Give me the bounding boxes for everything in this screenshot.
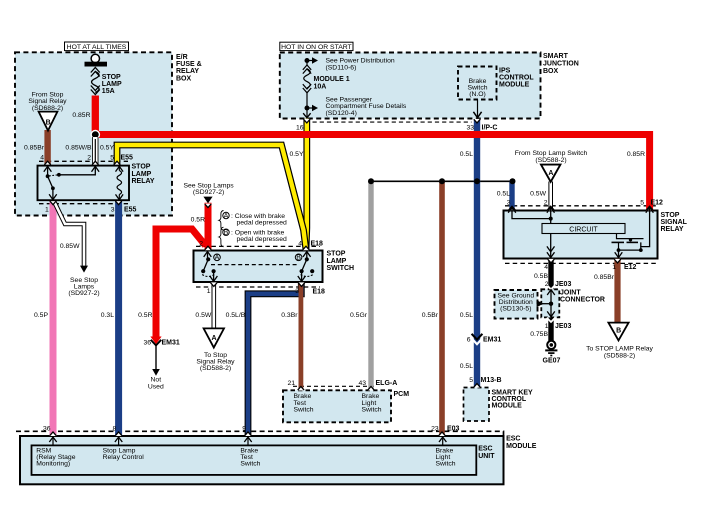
svg-text:6: 6: [467, 336, 471, 343]
see ground arrow: [537, 300, 544, 307]
triangle B from stop signal relay: [39, 112, 58, 131]
node gray tap: [368, 178, 374, 184]
svg-text:BOX: BOX: [176, 75, 192, 82]
fuse MODULE 1 10A element: [306, 61, 308, 67]
svg-text:Switch: Switch: [362, 406, 382, 413]
svg-text:(SD688-2): (SD688-2): [32, 105, 63, 112]
ESC module dashed boundary: [16, 431, 504, 436]
arrow see stop lamps top (into red): [203, 197, 212, 204]
triangle A from stop lamp switch: [541, 165, 560, 182]
pin E12-4 notch: [548, 259, 554, 263]
connector EM31 6 chevrons on blue: [472, 334, 483, 340]
brace A note: [219, 211, 224, 231]
pin E18-3 notch: [298, 282, 304, 286]
svg-text:E18: E18: [311, 240, 324, 247]
wire red 0.5R branch to EM31 36: [156, 229, 206, 338]
stop signal relay box: [504, 211, 658, 259]
joint connector JE03 internals: [547, 290, 555, 295]
svg-text:1: 1: [207, 288, 211, 295]
svg-text:CONNECTOR: CONNECTOR: [560, 297, 605, 304]
connector line E55 bottom: [39, 203, 128, 205]
svg-text:E55: E55: [121, 154, 134, 161]
wire white 0.5W switch pin1 to triangle A: [212, 283, 217, 328]
svg-text:RELAY: RELAY: [176, 68, 199, 75]
svg-text:LAMP: LAMP: [327, 258, 347, 265]
relay E55 line to pin 2: [59, 167, 95, 175]
stop lamp switch box: [194, 251, 323, 283]
svg-text:E03: E03: [447, 425, 460, 432]
pin E55-5 notch: [114, 162, 120, 166]
svg-text:JOINT: JOINT: [560, 289, 581, 296]
node red junction dot: [92, 131, 99, 138]
svg-text:0.3L: 0.3L: [101, 312, 114, 319]
svg-text:CONTROL: CONTROL: [499, 74, 534, 81]
svg-text:2: 2: [199, 240, 203, 247]
svg-text:Switch: Switch: [294, 406, 314, 413]
svg-text:SWITCH: SWITCH: [327, 265, 355, 272]
relay E55 blade dot: [51, 186, 55, 190]
fuse MODULE 1 10A node top: [305, 58, 310, 63]
svg-text:2: 2: [545, 281, 549, 288]
PCM box: [283, 390, 391, 422]
svg-text:0.85R: 0.85R: [627, 151, 645, 158]
pin E18-1 notch: [211, 282, 217, 286]
svg-text:0.5Br: 0.5Br: [422, 312, 439, 319]
triangle A to stop signal relay: [204, 328, 224, 347]
svg-text:(SD588-2): (SD588-2): [200, 365, 231, 372]
svg-text:0.5R: 0.5R: [138, 312, 152, 319]
ESC unit outer box: [20, 436, 504, 484]
svg-text:E12: E12: [651, 199, 664, 206]
svg-text:E55: E55: [124, 206, 137, 213]
svg-text:FUSE &: FUSE &: [176, 61, 202, 68]
brace B note: [219, 227, 224, 247]
svg-text:IPS: IPS: [499, 67, 511, 74]
svg-text:5: 5: [110, 154, 114, 161]
svg-text:E18: E18: [313, 288, 326, 295]
svg-text:(SD110-6): (SD110-6): [326, 64, 357, 71]
svg-text:0.3Br: 0.3Br: [281, 312, 298, 319]
wire black not-used stub: [155, 345, 157, 369]
pin E12-2 notch: [548, 207, 554, 211]
svg-text:ESC: ESC: [478, 446, 492, 453]
pin arrow ESC 23: [442, 437, 444, 445]
node blue tap: [474, 178, 480, 184]
svg-text:LAMP: LAMP: [102, 81, 122, 88]
pin E55-1 notch: [50, 201, 56, 205]
see ground distribution box: [495, 290, 538, 319]
svg-text:0.85R: 0.85R: [72, 112, 90, 119]
circled A note: [223, 212, 229, 218]
pin E55-4 notch: [45, 162, 51, 166]
svg-text:Relay Control: Relay Control: [103, 454, 145, 461]
JE03 joint connector box: [541, 289, 559, 317]
svg-text:STOP: STOP: [132, 164, 151, 171]
svg-text:15A: 15A: [102, 88, 115, 95]
pin 16 arrow at SJB edge: [303, 113, 310, 118]
wire yellow from SJB pin16 to E18 pin4: [303, 119, 311, 250]
node right blue stub: [510, 178, 516, 184]
svg-text:(SD927-2): (SD927-2): [193, 189, 224, 196]
svg-text:LAMP: LAMP: [132, 171, 152, 178]
svg-text:A: A: [215, 255, 220, 262]
svg-text:36: 36: [143, 340, 151, 347]
relay E55 switch blade: [48, 176, 53, 188]
fuse STOP LAMP 15A element: [91, 68, 100, 73]
pin PCM-21 notch: [298, 387, 304, 391]
pin ESC-23 notch: [439, 432, 445, 436]
svg-text:1: 1: [45, 206, 49, 213]
relay E55 line to pin 1: [52, 188, 54, 199]
pin E18-4 notch: [303, 247, 309, 251]
wire thin black signal line with junctions: [371, 180, 513, 182]
svg-text:0.5L: 0.5L: [460, 363, 473, 370]
svg-text:0.5W: 0.5W: [530, 190, 546, 197]
pin 33 arrow at SJB edge: [473, 112, 481, 118]
wire blue 0.5L from I/P-C 33 down to M13-B 5: [474, 119, 480, 387]
brake switch output line: [477, 100, 479, 118]
svg-text:0.85Br: 0.85Br: [594, 274, 615, 281]
svg-text:(SD120-4): (SD120-4): [326, 110, 357, 117]
svg-text:EM31: EM31: [162, 340, 180, 347]
wire red main horizontal and down to stop signal relay pin 5: [95, 135, 649, 211]
svg-text:0.5Y: 0.5Y: [100, 144, 114, 151]
pin ESC-36 notch: [50, 432, 56, 436]
pin PCM-43 notch: [368, 387, 374, 391]
wire blue 0.5L stub to stop signal relay pin 3: [509, 181, 514, 210]
svg-text:MODULE 1: MODULE 1: [314, 76, 350, 83]
pin E18-2 notch: [205, 247, 211, 251]
svg-text:HOT AT ALL TIMES: HOT AT ALL TIMES: [67, 44, 127, 51]
svg-text:HOT IN ON OR START: HOT IN ON OR START: [281, 44, 352, 51]
svg-text:0.5Gr: 0.5Gr: [350, 312, 368, 319]
svg-text:B: B: [224, 230, 229, 237]
svg-text:1: 1: [545, 323, 549, 330]
svg-text:MODULE: MODULE: [499, 82, 530, 89]
svg-text:I/P-C: I/P-C: [482, 125, 498, 132]
svg-text:UNIT: UNIT: [478, 453, 495, 460]
pin E12-5 notch: [647, 207, 653, 211]
pin 33 notch: [474, 119, 480, 123]
pin arrow ESC 36: [52, 437, 54, 445]
switch A label circle: [214, 254, 221, 261]
svg-text:3: 3: [507, 199, 511, 206]
svg-text:0.85Br: 0.85Br: [24, 144, 45, 151]
svg-text:B: B: [46, 120, 51, 127]
connector line I/P-C: [313, 121, 472, 123]
relay internal pin3 line: [508, 207, 516, 212]
transistor in relay: [617, 234, 644, 239]
relay internal junction dot: [549, 217, 553, 221]
svg-text:A: A: [548, 170, 553, 177]
wire black 0.75B joint connector to ground: [548, 317, 553, 341]
connector line E55 top: [39, 160, 128, 162]
svg-text:2: 2: [87, 154, 91, 161]
pin arrow ESC 9: [247, 437, 249, 445]
relay E55 dashed armature: [49, 175, 58, 176]
smart junction box: [280, 53, 541, 119]
wire white/black 0.85W/B junction to E55 pin 2: [92, 137, 98, 165]
svg-text:0.85W: 0.85W: [60, 243, 80, 250]
fuse STOP LAMP 15A circle terminal: [91, 54, 99, 62]
wire brown 0.85Br triangle B to E55 pin 4: [44, 130, 50, 165]
svg-text:BOX: BOX: [543, 68, 559, 75]
svg-text:JUNCTION: JUNCTION: [543, 61, 579, 68]
svg-text:4: 4: [544, 264, 548, 271]
relay E55 contact dot B: [57, 173, 61, 177]
relay E55 contact dot A: [46, 174, 50, 178]
arrow see stop lamps left: [80, 266, 88, 273]
svg-text:JE03: JE03: [555, 323, 571, 330]
svg-text:33: 33: [466, 125, 474, 132]
wire blue 0.3L E55 pin3 to ESC pin 8: [115, 201, 122, 436]
svg-text:0.5P: 0.5P: [34, 312, 48, 319]
svg-text:B: B: [296, 255, 301, 262]
svg-text:4: 4: [40, 154, 44, 161]
svg-text:RELAY: RELAY: [132, 178, 155, 185]
smart key control module box: [464, 388, 490, 422]
switch A contact: [204, 252, 212, 257]
svg-text:0.5W: 0.5W: [195, 312, 211, 319]
relay internal pin1 exit: [618, 250, 620, 258]
relay E55 box: [38, 166, 130, 201]
svg-text:pedal depressed: pedal depressed: [237, 236, 287, 243]
node red junction white halo: [91, 130, 101, 140]
IPS brake switch (N.O.) box: [458, 67, 497, 100]
wire brown 0.3Br switch pin3 to PCM pin 21: [298, 283, 303, 391]
pin E55-2 notch: [92, 162, 98, 166]
svg-text:0.5R: 0.5R: [191, 217, 205, 224]
svg-text:0.75B: 0.75B: [530, 331, 548, 338]
relay E55 coil: [116, 166, 124, 171]
svg-text:5: 5: [469, 377, 473, 384]
svg-text:(SD588-2): (SD588-2): [535, 157, 566, 164]
svg-text:3: 3: [295, 288, 299, 295]
svg-text:STOP: STOP: [102, 74, 121, 81]
connector JE03 white chevron top: [547, 285, 555, 289]
svg-text:GE07: GE07: [543, 357, 561, 364]
pin ESC-8 notch: [116, 432, 122, 436]
wire white 0.5W triangle A to stop signal relay pin 2: [548, 182, 553, 211]
fuse MODULE 1 10A node bottom: [305, 106, 310, 111]
svg-text:Monitoring): Monitoring): [36, 461, 70, 468]
pin 16 notch: [304, 119, 310, 123]
CIRCUIT box: [542, 224, 625, 234]
pin E12-1 notch: [614, 259, 620, 263]
svg-text:MODULE: MODULE: [506, 443, 537, 450]
relay internal pin5 line: [646, 207, 654, 212]
relay internal pin2 line: [547, 207, 555, 212]
triangle B to stop lamp relay: [608, 323, 628, 341]
svg-text:0.5B: 0.5B: [534, 273, 548, 280]
node brown tap: [439, 178, 445, 184]
svg-text:Switch: Switch: [240, 461, 260, 468]
svg-text:0.5L/B: 0.5L/B: [226, 312, 246, 319]
relay internal pin4 exit: [550, 234, 552, 258]
svg-text:36: 36: [43, 425, 51, 432]
wire brown 0.85Br relay pin1 to triangle B: [614, 259, 620, 323]
connector line E18 top: [196, 245, 320, 247]
ESC unit inner box: [32, 445, 477, 475]
svg-text:0.5L: 0.5L: [460, 151, 473, 158]
fuse STOP LAMP 15A bar: [85, 62, 108, 67]
wire pink 0.5P E55 pin1 to ESC pin 36: [50, 201, 57, 436]
svg-text:23: 23: [431, 425, 439, 432]
svg-text:0.85W/B: 0.85W/B: [65, 144, 92, 151]
svg-text:Used: Used: [148, 383, 164, 390]
connector line E12 top: [505, 205, 657, 207]
svg-text:M13-B: M13-B: [481, 377, 502, 384]
svg-text:1: 1: [612, 264, 616, 271]
svg-text:PCM: PCM: [394, 391, 410, 398]
connector line ELG-A: [293, 385, 376, 387]
wire red 0.5R from see-stop-lamps arrow to switch pin 2: [205, 203, 212, 250]
svg-text:CIRCUIT: CIRCUIT: [569, 226, 598, 233]
svg-text:9: 9: [242, 425, 246, 432]
svg-text:5: 5: [640, 199, 644, 206]
svg-text:0.5L: 0.5L: [497, 190, 510, 197]
svg-text:3: 3: [111, 206, 115, 213]
svg-text:B: B: [616, 328, 621, 335]
svg-text:pedal depressed: pedal depressed: [237, 219, 287, 226]
pin E12-3 notch: [509, 207, 515, 211]
wire red from fuse down: [92, 96, 99, 135]
svg-text:16: 16: [296, 125, 304, 132]
svg-text:MODULE: MODULE: [492, 403, 523, 410]
svg-text:JE03: JE03: [555, 281, 571, 288]
svg-text:ELG-A: ELG-A: [376, 380, 398, 387]
svg-text:4: 4: [298, 240, 302, 247]
wire white 0.85W to see stop lamps: [55, 202, 85, 266]
switch B label circle: [295, 254, 302, 261]
wire brown 0.5Br to ESC pin 23: [439, 181, 445, 436]
svg-text:2: 2: [544, 199, 548, 206]
circled B note: [223, 229, 229, 235]
switch B contact: [303, 252, 311, 257]
wire gray 0.5Gr to PCM pin 43: [368, 181, 373, 390]
pin arrow ESC 8: [118, 437, 120, 445]
svg-text:A: A: [211, 335, 216, 342]
svg-text:SMART: SMART: [543, 53, 569, 60]
connector line E12 bottom: [505, 262, 657, 264]
svg-text:(SD588-2): (SD588-2): [604, 352, 635, 359]
svg-text:E12: E12: [624, 264, 637, 271]
wire black 0.5B relay pin4 to joint connector: [548, 259, 553, 290]
ground GE07: [547, 341, 555, 349]
svg-text:STOP: STOP: [327, 251, 346, 258]
pin E55-3 notch: [116, 201, 122, 205]
pin M13-5 notch: [474, 384, 480, 388]
svg-text:RELAY: RELAY: [661, 226, 684, 233]
relay E55 pin4 arrow: [44, 166, 52, 171]
connector line E18 bottom: [196, 286, 320, 288]
svg-text:8: 8: [113, 425, 117, 432]
pin ESC-9 notch: [245, 432, 251, 436]
HOT AT ALL TIMES label: [65, 42, 129, 51]
E/R fuse & relay box: [15, 52, 172, 215]
svg-text:Switch: Switch: [436, 461, 456, 468]
wire navy 0.5L/B switch pin3 to ESC pin 9: [248, 283, 301, 436]
svg-text:10A: 10A: [314, 83, 327, 90]
svg-text:21: 21: [287, 380, 295, 387]
wire yellow from E55 pin5 to E18 pin4: [117, 145, 306, 250]
arrow not used: [152, 369, 160, 376]
svg-text:0.5Y: 0.5Y: [290, 151, 304, 158]
svg-text:(SD927-2): (SD927-2): [68, 290, 99, 297]
svg-text:SIGNAL: SIGNAL: [661, 219, 688, 226]
svg-text:(N.O): (N.O): [469, 91, 486, 98]
HOT IN ON OR START label: [280, 42, 353, 50]
svg-text:43: 43: [358, 380, 366, 387]
connector EM31 36 red arrowhead: [150, 337, 161, 345]
svg-text:A: A: [224, 213, 229, 220]
svg-text:EM31: EM31: [483, 336, 501, 343]
svg-text:ESC: ESC: [506, 435, 520, 442]
connector JE03 white chevron bottom: [547, 318, 555, 322]
svg-text:E/R: E/R: [176, 54, 188, 61]
switch mechanical dashed link: [211, 264, 297, 266]
svg-text:0.5L: 0.5L: [460, 312, 473, 319]
svg-text:STOP: STOP: [661, 212, 680, 219]
svg-text:(SD130-5): (SD130-5): [500, 306, 531, 313]
